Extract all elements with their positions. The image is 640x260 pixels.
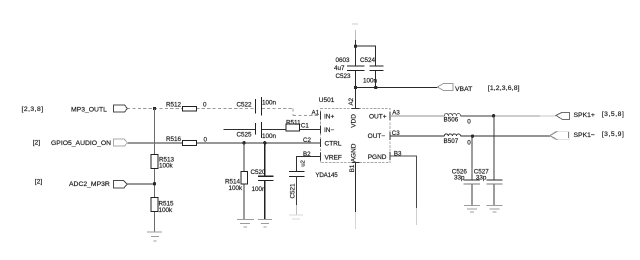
svg-text:4u7: 4u7 bbox=[334, 65, 345, 72]
svg-text:R512: R512 bbox=[166, 102, 182, 109]
wire C520 branch bbox=[264, 143, 266, 219]
capacitor C523 bbox=[334, 57, 365, 80]
ground under C521 (faint) bbox=[289, 215, 303, 219]
wire AGND pin down bbox=[355, 163, 357, 212]
wire ADC2_MP3R net bbox=[127, 183, 155, 185]
svg-text:100n: 100n bbox=[363, 78, 378, 85]
svg-text:100n: 100n bbox=[252, 186, 267, 193]
svg-text:VREF: VREF bbox=[325, 155, 342, 162]
svg-text:C521: C521 bbox=[289, 183, 296, 199]
node VDD top junction bbox=[354, 45, 357, 48]
svg-text:100n: 100n bbox=[262, 100, 277, 107]
capacitor C527 bbox=[472, 168, 502, 184]
svg-text:B2: B2 bbox=[303, 151, 311, 158]
IC pin edge ticks bbox=[321, 108, 391, 162]
svg-text:33p: 33p bbox=[454, 174, 465, 181]
input flag GPIO5_AUDIO_ON bbox=[33, 139, 128, 147]
svg-text:OUT−: OUT− bbox=[368, 133, 386, 140]
ground under R515 bbox=[147, 232, 162, 241]
svg-text:U501: U501 bbox=[319, 97, 335, 104]
ground under R514 bbox=[237, 219, 254, 227]
capacitor C522 bbox=[237, 97, 277, 116]
svg-text:100k: 100k bbox=[229, 185, 244, 192]
svg-text:OUT+: OUT+ bbox=[369, 113, 387, 120]
wire VREF net bbox=[296, 157, 320, 172]
svg-text:[2,3,8]: [2,3,8] bbox=[22, 106, 44, 113]
resistor R514 bbox=[225, 171, 247, 192]
svg-text:100k: 100k bbox=[159, 207, 174, 214]
svg-text:MP3_OUTL: MP3_OUTL bbox=[71, 107, 107, 114]
IC U501 pin names bbox=[324, 113, 387, 162]
svg-text:A2: A2 bbox=[348, 97, 355, 105]
svg-text:C522: C522 bbox=[237, 101, 253, 108]
svg-text:IN+: IN+ bbox=[324, 114, 335, 121]
input flag MP3_OUTL bbox=[22, 105, 128, 114]
node VBAT junction left bbox=[354, 86, 357, 89]
node OUT+ junction bbox=[492, 114, 495, 117]
wire R514 branch bbox=[243, 143, 245, 219]
svg-text:B507: B507 bbox=[444, 138, 459, 145]
node MP3_OUTL junction bbox=[153, 107, 156, 110]
wire VBAT line bbox=[356, 87, 438, 89]
wire IN- net bbox=[224, 128, 321, 130]
svg-text:SPK1−: SPK1− bbox=[574, 132, 595, 139]
svg-text:VBAT: VBAT bbox=[455, 86, 472, 93]
ground under C520 bbox=[258, 219, 272, 227]
IC U501 pin designators bbox=[301, 97, 402, 172]
wire left pulldown chain vertical bbox=[154, 109, 156, 232]
svg-text:[2]: [2] bbox=[35, 179, 43, 186]
node CTRL junction C520 bbox=[263, 141, 266, 144]
capacitor C525 bbox=[237, 122, 277, 140]
capacitor C526 bbox=[452, 168, 480, 184]
svg-text:PGND: PGND bbox=[368, 154, 387, 161]
input flag ADC2_MP3R bbox=[35, 179, 128, 189]
svg-text:0: 0 bbox=[467, 139, 471, 146]
svg-text:100k: 100k bbox=[159, 163, 174, 170]
svg-text:AGND: AGND bbox=[351, 143, 358, 162]
ground under C527 bbox=[487, 205, 503, 212]
node CTRL junction R514 bbox=[242, 141, 245, 144]
svg-text:[1,2,3,6,8]: [1,2,3,6,8] bbox=[488, 85, 520, 92]
svg-text:GPIO5_AUDIO_ON: GPIO5_AUDIO_ON bbox=[51, 140, 111, 147]
resistor R516 bbox=[166, 136, 208, 145]
wire VDD rail bbox=[355, 30, 357, 40]
ground under C526 bbox=[464, 205, 480, 212]
wire OUT+ net (gray) bbox=[390, 115, 444, 117]
power flag VBAT bbox=[438, 83, 520, 92]
wire OUT- net bbox=[390, 135, 550, 137]
svg-text:C2: C2 bbox=[303, 137, 311, 144]
wire MP3_OUTL dashed net bbox=[127, 109, 321, 116]
svg-text:C524: C524 bbox=[360, 57, 376, 64]
node VBAT junction C524 bbox=[374, 86, 377, 89]
svg-text:0: 0 bbox=[467, 119, 471, 126]
svg-text:ADC2_MP3R: ADC2_MP3R bbox=[69, 181, 110, 188]
power stub top of VDD rail bbox=[352, 23, 358, 25]
svg-text:VDD: VDD bbox=[351, 114, 358, 128]
svg-text:[3,5,9]: [3,5,9] bbox=[602, 131, 625, 138]
svg-text:CTRL: CTRL bbox=[325, 141, 342, 148]
svg-text:A1: A1 bbox=[312, 109, 320, 116]
IC U501 body bbox=[315, 97, 390, 179]
svg-text:0603: 0603 bbox=[336, 57, 351, 64]
resistor R513 bbox=[151, 155, 174, 170]
svg-text:B506: B506 bbox=[444, 117, 459, 124]
resistor R512 bbox=[166, 102, 207, 112]
svg-text:100n: 100n bbox=[262, 133, 277, 140]
svg-text:C523: C523 bbox=[336, 73, 352, 80]
ferrite bead B506 bbox=[444, 113, 472, 125]
node OUT- junction bbox=[471, 135, 474, 138]
svg-text:0: 0 bbox=[203, 102, 207, 109]
svg-text:IN−: IN− bbox=[324, 127, 335, 134]
wire GPIO5_AUDIO_ON / CTRL net bbox=[127, 142, 321, 144]
svg-text:C1: C1 bbox=[301, 123, 309, 130]
svg-text:33p: 33p bbox=[476, 174, 487, 181]
resistor R515 bbox=[151, 198, 174, 215]
svg-text:C520: C520 bbox=[251, 169, 267, 176]
svg-text:R516: R516 bbox=[166, 136, 182, 143]
wire C524 branch top bbox=[356, 46, 376, 87]
svg-text:[2]: [2] bbox=[33, 139, 41, 146]
wire C526 branch bbox=[471, 136, 473, 205]
svg-text:0: 0 bbox=[204, 136, 208, 143]
svg-text:[3,5,8]: [3,5,8] bbox=[602, 111, 625, 118]
ferrite bead B507 bbox=[444, 134, 472, 147]
capacitor C520 bbox=[251, 169, 274, 193]
wire C527 branch bbox=[493, 116, 495, 206]
output flag SPK1+ bbox=[556, 111, 624, 120]
node ADC2 junction bbox=[153, 182, 156, 185]
capacitor C521 bbox=[289, 160, 307, 214]
svg-text:R511: R511 bbox=[286, 119, 301, 126]
svg-text:u2: u2 bbox=[301, 160, 307, 166]
capacitor C524 bbox=[360, 57, 383, 85]
svg-text:SPK1+: SPK1+ bbox=[574, 112, 595, 119]
output flag SPK1- bbox=[550, 131, 625, 140]
svg-text:C525: C525 bbox=[237, 131, 253, 138]
resistor R511 bbox=[286, 119, 301, 131]
svg-text:YDA145: YDA145 bbox=[315, 172, 338, 179]
wire PGND down bbox=[390, 156, 417, 208]
